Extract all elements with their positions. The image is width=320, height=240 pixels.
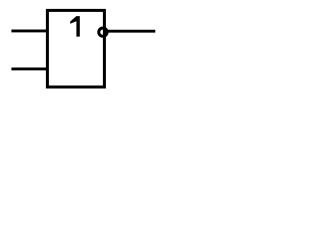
label 1 — [70, 16, 80, 36]
wire output Y — [108, 30, 156, 33]
gate body U1 — [47, 10, 104, 87]
wire input B — [11, 67, 47, 70]
logic gate U1 (IEC buffer "1" with inverted output) — [0, 0, 176, 101]
wire input A — [11, 29, 47, 32]
inversion bubble — [99, 28, 107, 36]
